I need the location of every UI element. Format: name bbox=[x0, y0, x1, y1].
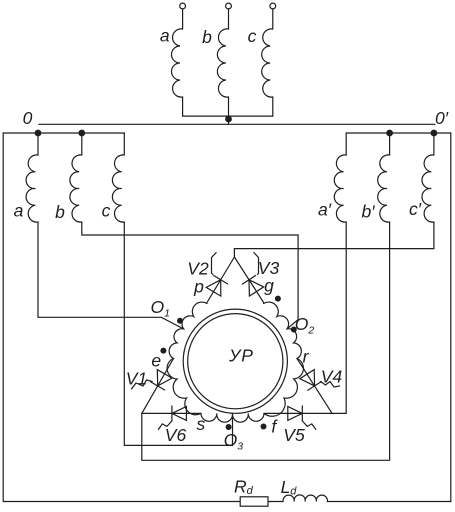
gate V4 bbox=[321, 382, 340, 388]
coil a-prime right group bbox=[334, 155, 346, 222]
svg-text:b′: b′ bbox=[361, 202, 375, 222]
wire V1 corner to s bbox=[142, 412, 201, 414]
coil b left group bbox=[70, 155, 82, 222]
wire e to V1 corner bbox=[142, 359, 174, 414]
thyristor V5 bbox=[301, 406, 303, 421]
wire coil a left top bbox=[37, 133, 39, 155]
svg-text:V4: V4 bbox=[321, 367, 343, 387]
node e dot bbox=[160, 348, 166, 354]
gate V1 bbox=[132, 380, 153, 389]
winding arc left p to s bbox=[167, 302, 207, 415]
wire terminal A down bbox=[182, 9, 184, 29]
coil b top transformer bbox=[217, 29, 228, 97]
junction a left bbox=[35, 130, 42, 137]
coil a top transformer bbox=[172, 29, 183, 97]
svg-text:Rd: Rd bbox=[234, 476, 254, 497]
thyristor V1 bbox=[151, 382, 165, 390]
node O1 dot bbox=[177, 318, 183, 324]
wire terminal C down bbox=[272, 9, 274, 29]
coil c left group bbox=[112, 155, 124, 222]
svg-text:c: c bbox=[248, 26, 257, 46]
wire coil a to node O1 bbox=[38, 222, 184, 329]
wire neutral top transformer bbox=[183, 115, 273, 117]
node O2 dot bbox=[291, 327, 297, 333]
svg-text:УР: УР bbox=[228, 345, 254, 365]
svg-text:a: a bbox=[14, 201, 24, 221]
svg-text:V1: V1 bbox=[126, 368, 147, 388]
node O3 dot bbox=[226, 424, 232, 430]
svg-text:O1: O1 bbox=[150, 297, 169, 320]
svg-text:c: c bbox=[102, 201, 111, 221]
wire coil b-prime to V1 corner bbox=[142, 222, 390, 460]
gate V2 bbox=[212, 253, 217, 275]
terminal A bbox=[180, 3, 186, 9]
junction c-prime bbox=[431, 130, 438, 137]
coil c top transformer bbox=[262, 29, 273, 97]
terminal B bbox=[226, 3, 232, 9]
wire coil a stub bbox=[182, 97, 184, 116]
node f dot bbox=[261, 424, 267, 430]
wire coil b stub to bus bbox=[228, 97, 230, 124]
svg-text:Ld: Ld bbox=[281, 477, 298, 498]
wire f to V4 corner bbox=[264, 412, 346, 414]
svg-text:s: s bbox=[197, 414, 206, 434]
thyristor V4 bbox=[308, 382, 322, 391]
svg-text:r: r bbox=[303, 346, 310, 366]
wire r to V4 corner bbox=[297, 359, 332, 414]
svg-text:a′: a′ bbox=[318, 199, 332, 219]
wire coil b-prime top bbox=[389, 133, 391, 155]
svg-text:e: e bbox=[151, 350, 161, 370]
wire terminal B down bbox=[228, 9, 230, 29]
junction b-prime bbox=[386, 130, 393, 137]
wire coil c left top bbox=[123, 133, 125, 155]
wire coil c-prime to apex bbox=[234, 222, 434, 257]
coil b-prime right group bbox=[378, 155, 390, 222]
svg-text:g: g bbox=[264, 276, 274, 296]
wire left frame bbox=[2, 133, 4, 502]
svg-text:V5: V5 bbox=[283, 425, 305, 445]
gate V6 bbox=[158, 421, 172, 430]
winding arc right g to f bbox=[264, 302, 304, 416]
terminal C bbox=[270, 3, 276, 9]
svg-text:V6: V6 bbox=[165, 425, 187, 445]
svg-text:c′: c′ bbox=[409, 199, 422, 219]
svg-text:O3: O3 bbox=[224, 430, 244, 453]
svg-text:b: b bbox=[202, 27, 212, 47]
node g dot bbox=[275, 296, 281, 302]
gate V5 bbox=[302, 421, 316, 430]
coil a left group bbox=[26, 155, 38, 222]
thyristor V6 bbox=[171, 406, 173, 421]
wire coil b to node O2 bbox=[82, 222, 298, 329]
wire bottom left segment bbox=[3, 501, 240, 503]
resistor Rd bbox=[240, 497, 268, 506]
reactor UR outer circle bbox=[183, 309, 287, 413]
svg-text:b: b bbox=[55, 202, 65, 222]
wire coil c to node O3 bbox=[124, 222, 232, 445]
wire right frame bbox=[450, 133, 452, 502]
wire apex to g bbox=[234, 257, 263, 303]
svg-text:O2: O2 bbox=[295, 314, 315, 337]
svg-text:a: a bbox=[160, 26, 170, 46]
wire bus 0 to 0-prime bbox=[39, 123, 435, 125]
svg-text:p: p bbox=[193, 277, 204, 297]
winding arc bottom s to f bbox=[201, 413, 264, 422]
wire right group header bbox=[346, 132, 451, 134]
thyristor V2 bbox=[214, 276, 228, 284]
inductor Ld bbox=[283, 495, 327, 502]
svg-text:0′: 0′ bbox=[435, 108, 449, 128]
wire coil a-prime top bbox=[345, 133, 347, 155]
junction neutral bbox=[225, 116, 232, 123]
svg-text:V2: V2 bbox=[187, 258, 209, 278]
wire coil b left top bbox=[81, 133, 83, 155]
wire between Rd and Ld bbox=[268, 501, 283, 503]
coil c-prime right group bbox=[422, 155, 434, 222]
wire coil c stub bbox=[272, 97, 274, 116]
svg-text:0: 0 bbox=[23, 108, 33, 128]
wire apex to p bbox=[207, 257, 234, 303]
wire bottom right segment bbox=[327, 501, 450, 503]
svg-text:f: f bbox=[271, 416, 278, 436]
reactor UR inner circle bbox=[188, 314, 283, 409]
wire coil c-prime top bbox=[433, 133, 435, 155]
gate V3 bbox=[254, 253, 259, 275]
junction b left bbox=[78, 130, 85, 137]
wire left group header bbox=[3, 132, 124, 134]
wire coil a-prime to bridge bbox=[345, 222, 347, 413]
thyristor V3 bbox=[242, 275, 255, 284]
